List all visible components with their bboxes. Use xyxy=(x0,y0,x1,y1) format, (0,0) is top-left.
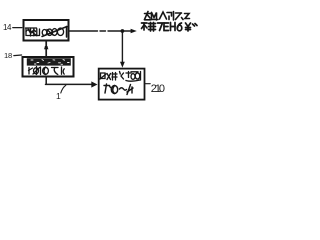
svg-text:18: 18 xyxy=(4,51,12,60)
svg-text:210: 210 xyxy=(151,83,165,95)
svg-text:14: 14 xyxy=(3,23,12,32)
svg-text:1: 1 xyxy=(56,91,61,101)
